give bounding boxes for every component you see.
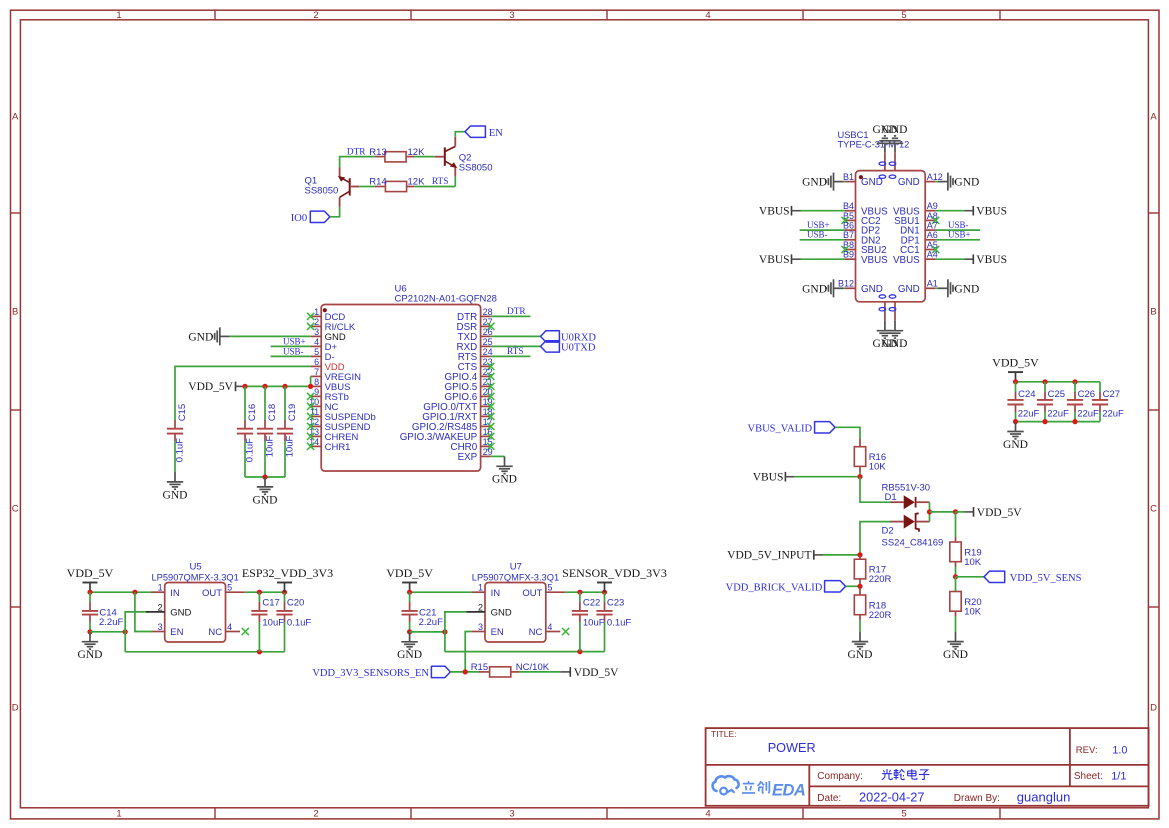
U6 pin 10 NC	[307, 397, 338, 413]
svg-text:IN: IN	[491, 588, 501, 599]
svg-text:GND: GND	[253, 494, 278, 506]
svg-text:IN: IN	[170, 588, 180, 599]
U6 pin 13 CHREN	[307, 427, 359, 443]
svg-text:24: 24	[483, 347, 493, 357]
svg-text:C25: C25	[1048, 389, 1065, 400]
svg-text:SS8050: SS8050	[459, 163, 493, 174]
ground	[943, 632, 968, 661]
svg-text:4: 4	[227, 622, 232, 632]
junction	[407, 629, 412, 634]
svg-text:OUT: OUT	[522, 588, 542, 599]
capacitor C18	[257, 386, 278, 477]
svg-text:4: 4	[705, 10, 710, 21]
sheet field	[1074, 771, 1127, 783]
net label VDD_5V_INPUT	[727, 550, 860, 562]
net label USB+ / wire to U6 pin4	[271, 336, 311, 346]
svg-text:A4: A4	[927, 250, 938, 260]
svg-text:B12: B12	[838, 279, 854, 289]
op-amp U7 LP5907QMFX-3.3Q1 body	[472, 562, 559, 642]
svg-text:25: 25	[483, 337, 493, 347]
svg-text:29: 29	[483, 447, 493, 457]
U6 pin 21 GPIO.5	[445, 377, 495, 393]
power flag SENSOR_VDD_3V3	[562, 566, 667, 592]
svg-text:B: B	[1150, 307, 1156, 318]
svg-text:GND: GND	[861, 177, 883, 188]
USBC1 pin A7 DN1	[900, 221, 938, 237]
svg-text:1/1: 1/1	[1111, 771, 1126, 783]
rev field	[1076, 744, 1128, 756]
svg-text:U5: U5	[190, 562, 202, 573]
junction	[87, 590, 92, 595]
svg-text:2.2uF: 2.2uF	[419, 617, 443, 628]
svg-text:USB-: USB-	[807, 230, 828, 240]
U6 pin 3 GND	[311, 327, 346, 343]
svg-text:3: 3	[314, 327, 319, 337]
svg-text:8: 8	[314, 377, 319, 387]
svg-text:VBUS: VBUS	[759, 206, 790, 218]
wire	[835, 427, 860, 438]
svg-text:10K: 10K	[964, 606, 982, 617]
resistor R17 220R	[854, 555, 891, 586]
capacitor C24 22uF	[1007, 382, 1039, 422]
port U0RXD	[541, 331, 597, 344]
svg-text:SENSOR_VDD_3V3: SENSOR_VDD_3V3	[562, 566, 667, 580]
junction	[123, 629, 128, 634]
svg-text:C20: C20	[287, 597, 304, 608]
junction	[953, 509, 958, 514]
power flag ESP32_VDD_3V3	[242, 566, 333, 592]
svg-text:GND: GND	[188, 331, 213, 343]
U6 pin 27 DSR	[457, 317, 495, 333]
title text POWER	[711, 729, 816, 755]
wire	[414, 156, 435, 158]
svg-text:NC: NC	[529, 627, 543, 638]
svg-text:9: 9	[314, 387, 319, 397]
net label VDD_5V	[956, 507, 1023, 519]
svg-text:LP5907QMFX-3.3Q1: LP5907QMFX-3.3Q1	[152, 573, 239, 583]
wire U7 pin3 EN down to R15 net	[465, 632, 471, 672]
svg-text:2.2uF: 2.2uF	[99, 617, 123, 628]
wire C14 bottom to GND net	[90, 631, 125, 633]
svg-text:C22: C22	[583, 597, 600, 608]
capacitor C14 2.2uF	[82, 592, 124, 632]
svg-text:3: 3	[478, 622, 483, 632]
svg-text:C: C	[12, 504, 19, 515]
capacitor C19	[277, 386, 298, 477]
resistor R14	[369, 177, 425, 192]
wire U6 pin7 to pin8 rail	[310, 376, 312, 386]
svg-text:B1: B1	[843, 172, 854, 182]
svg-text:A1: A1	[927, 279, 938, 289]
svg-text:D1: D1	[885, 492, 897, 503]
svg-text:10uF: 10uF	[262, 618, 284, 629]
svg-text:B: B	[12, 307, 18, 318]
capacitor C27 22uF	[1092, 382, 1124, 422]
svg-text:VDD_5V_SENS: VDD_5V_SENS	[1010, 573, 1082, 584]
net label DTR	[347, 147, 366, 157]
resistor R19 10K	[950, 512, 982, 577]
ground bottom-left	[872, 321, 897, 350]
USBC1 pin B5 CC2	[841, 211, 880, 227]
ground flag at A12	[936, 173, 980, 191]
svg-text:D: D	[1150, 702, 1157, 713]
svg-text:VDD_5V: VDD_5V	[977, 507, 1022, 519]
wire U6 pin25 to U0TXD	[491, 345, 541, 347]
svg-text:REV:: REV:	[1076, 745, 1098, 756]
svg-text:GND: GND	[943, 649, 968, 661]
ground flag at A1	[936, 279, 980, 297]
svg-text:22uF: 22uF	[1077, 408, 1099, 419]
svg-text:0.1uF: 0.1uF	[607, 618, 631, 629]
svg-text:GND: GND	[848, 649, 873, 661]
svg-text:guanglun: guanglun	[1017, 789, 1071, 804]
junction	[857, 552, 862, 557]
svg-text:A: A	[12, 112, 19, 123]
svg-text:Company:: Company:	[817, 771, 863, 782]
svg-text:GND: GND	[898, 284, 920, 295]
svg-text:2: 2	[314, 317, 319, 327]
svg-text:Drawn By:: Drawn By:	[954, 793, 1000, 804]
USBC1 pin B6 DP2	[843, 221, 880, 237]
op-amp U6 CP2102N-A01-GQFN28 body	[321, 284, 497, 472]
svg-text:10K: 10K	[869, 462, 887, 473]
U6 pin 7 VREGIN	[311, 367, 362, 383]
U5 pin 3 EN	[151, 622, 184, 638]
svg-text:POWER: POWER	[768, 741, 816, 755]
wire U6 pin26 to U0RXD	[491, 335, 541, 337]
net label VBUS at B9	[759, 254, 845, 266]
U6 pin 17 GPIO.2/RS485	[412, 417, 495, 433]
wire C21 bottom to GND net	[410, 631, 445, 633]
svg-text:GND: GND	[1003, 439, 1028, 451]
U6 pin 16 GPIO.3/WAKEUP	[400, 427, 495, 443]
USBC1 shell pins to bottom grounds	[879, 295, 896, 321]
svg-text:SS24_C84169: SS24_C84169	[882, 537, 944, 548]
wire	[174, 441, 176, 472]
svg-text:CP2102N-A01-GQFN28: CP2102N-A01-GQFN28	[395, 293, 497, 304]
svg-text:GND: GND	[397, 649, 422, 661]
wire to VDD_5V	[930, 511, 956, 513]
net label USB- wire to A7	[936, 220, 980, 230]
company value 光轮电子	[882, 769, 930, 780]
U6 pin 15 CHR0	[451, 437, 495, 453]
U6 pin 5 D-	[311, 347, 335, 363]
svg-text:0.1uF: 0.1uF	[174, 438, 185, 462]
ground flag at B1	[802, 173, 845, 191]
svg-text:VDD_5V: VDD_5V	[992, 356, 1039, 370]
net label USB- wire to B7	[800, 230, 845, 240]
wire D2 anode	[860, 522, 891, 555]
svg-text:10uF: 10uF	[284, 435, 295, 457]
USBC1 pin A1 GND	[898, 279, 938, 295]
svg-text:EN: EN	[491, 627, 504, 638]
port VDD_3V3_SENSORS_EN	[312, 666, 450, 679]
svg-text:2022-04-27: 2022-04-27	[859, 789, 924, 804]
svg-text:0.1uF: 0.1uF	[287, 618, 311, 629]
U7 pin 4 NC	[529, 622, 570, 638]
net label RTS	[432, 177, 449, 187]
diode D2 SS24_C84169	[882, 513, 944, 548]
wire U6 pin29 EXP to ground	[491, 455, 505, 457]
U6 pin 23 CTS	[458, 357, 495, 373]
wire DTR vertical	[340, 157, 375, 168]
port IO0	[291, 211, 330, 224]
U6 pin 4 D+	[311, 337, 338, 353]
junction	[577, 590, 582, 595]
svg-text:GND: GND	[861, 284, 883, 295]
power flag VDD_5V above C24	[992, 356, 1039, 382]
svg-text:C18: C18	[267, 404, 278, 421]
net label USB+ wire to B6	[800, 220, 845, 230]
svg-text:VDD_3V3_SENSORS_EN: VDD_3V3_SENSORS_EN	[312, 668, 429, 679]
svg-text:C27: C27	[1103, 389, 1120, 400]
wire to VDD_5V_SENS	[956, 576, 985, 578]
junction	[1042, 419, 1047, 424]
svg-text:4: 4	[547, 622, 552, 632]
capacitor C21 2.2uF	[402, 592, 444, 632]
svg-text:A7: A7	[927, 221, 938, 231]
svg-text:VDD_BRICK_VALID: VDD_BRICK_VALID	[726, 582, 823, 593]
svg-text:Sheet:: Sheet:	[1074, 771, 1103, 782]
wire IN rail	[90, 591, 151, 593]
wire U6 pin6 VDD to C15	[175, 366, 311, 420]
wire	[330, 207, 340, 217]
svg-text:1: 1	[478, 583, 483, 593]
net label VBUS at B4	[759, 206, 845, 218]
svg-text:NC: NC	[208, 627, 222, 638]
U7 pin 5 OUT	[522, 583, 565, 599]
svg-text:VBUS: VBUS	[976, 254, 1007, 266]
wire IN rail U7	[410, 591, 472, 593]
U7 pin 2 GND	[466, 602, 512, 618]
wire EN tie to IN	[135, 592, 153, 631]
U6 pin 18 GPIO.1/RXT	[422, 407, 494, 423]
junction	[262, 474, 267, 479]
junction	[953, 574, 958, 579]
junction	[282, 384, 287, 389]
junction	[308, 384, 313, 389]
ground	[848, 632, 873, 661]
net label VDD_5V at U6 pin8	[188, 381, 245, 393]
svg-text:7: 7	[314, 367, 319, 377]
wire	[450, 671, 478, 673]
USBC1 shell pins to top grounds	[879, 152, 896, 178]
capacitor C17 10uF	[251, 592, 284, 652]
port U0TXD	[541, 341, 596, 354]
svg-text:1.0: 1.0	[1112, 744, 1127, 756]
svg-text:GND: GND	[492, 474, 517, 486]
wire	[230, 335, 311, 337]
ground top-right inverted	[883, 124, 908, 153]
capacitor C15	[167, 404, 188, 462]
svg-text:2: 2	[158, 602, 163, 612]
svg-text:GND: GND	[802, 177, 827, 189]
svg-text:GND: GND	[954, 283, 979, 295]
junction	[463, 669, 468, 674]
svg-text:2: 2	[313, 809, 318, 820]
USBC1 pin A5 CC1	[900, 240, 939, 256]
svg-text:5: 5	[314, 347, 319, 357]
wire bottom rail	[1016, 421, 1101, 423]
svg-text:TITLE:: TITLE:	[711, 729, 737, 739]
ground bottom-right	[883, 321, 908, 350]
svg-text:C24: C24	[1018, 389, 1035, 400]
transistor Q2	[435, 137, 493, 187]
svg-text:GND: GND	[883, 124, 908, 136]
ground flag at U6 pin3	[188, 327, 229, 345]
ground flag at B12	[802, 279, 845, 297]
svg-text:10uF: 10uF	[264, 435, 275, 457]
op-amp U5 LP5907QMFX-3.3Q1 body	[152, 562, 239, 642]
svg-text:B6: B6	[843, 221, 854, 231]
ground	[163, 472, 188, 501]
svg-text:EN: EN	[489, 128, 503, 139]
junction	[262, 384, 267, 389]
svg-text:C16: C16	[247, 404, 258, 421]
capacitor C25 22uF	[1037, 382, 1069, 422]
svg-text:5: 5	[901, 10, 906, 21]
svg-text:26: 26	[483, 327, 493, 337]
svg-text:3: 3	[509, 10, 514, 21]
svg-text:1: 1	[314, 307, 319, 317]
svg-text:VBUS_VALID: VBUS_VALID	[748, 423, 813, 434]
resistor R18 220R	[854, 586, 891, 621]
svg-text:5: 5	[227, 583, 232, 593]
USBC1 pin A12 GND	[898, 172, 943, 188]
svg-text:VDD_5V: VDD_5V	[67, 566, 114, 580]
wire top rail	[1016, 381, 1101, 383]
ground	[492, 456, 517, 485]
USBC1 pin A6 DP1	[901, 230, 938, 246]
svg-text:5: 5	[901, 809, 906, 820]
wire	[455, 132, 465, 137]
svg-text:6: 6	[314, 357, 319, 367]
title block frame	[706, 728, 1149, 806]
svg-text:B9: B9	[843, 250, 854, 260]
junction	[132, 590, 137, 595]
wire OUT rail U5	[245, 591, 285, 593]
USBC1 pin B9 VBUS	[843, 250, 888, 266]
wire	[859, 620, 861, 632]
connector USBC1 TYPE-C-31-M-12 body	[838, 130, 926, 302]
svg-text:10K: 10K	[964, 557, 982, 568]
port EN	[465, 126, 503, 139]
junction	[577, 649, 582, 654]
junction	[257, 649, 262, 654]
junction	[442, 629, 447, 634]
ground top-left inverted	[872, 124, 897, 153]
LCEDA logo	[713, 776, 806, 799]
junction	[857, 584, 862, 589]
svg-text:C17: C17	[262, 597, 279, 608]
svg-text:VBUS: VBUS	[759, 254, 790, 266]
wire OUT rail U7	[565, 591, 604, 593]
U6 pin 29 EXP	[458, 447, 493, 463]
svg-text:GND: GND	[883, 338, 908, 350]
svg-text:5: 5	[547, 583, 552, 593]
capacitor C26 22uF	[1067, 382, 1099, 422]
resistor R13	[369, 147, 425, 162]
svg-text:DTR: DTR	[347, 147, 366, 157]
junction	[87, 629, 92, 634]
U6 pin 24 RTS	[458, 347, 493, 363]
capacitor C16	[237, 386, 258, 477]
svg-text:VBUS: VBUS	[753, 472, 784, 484]
junction	[1013, 379, 1018, 384]
svg-text:1: 1	[116, 809, 121, 820]
svg-text:USB-: USB-	[948, 220, 969, 230]
wire RTS row	[359, 186, 374, 188]
svg-text:GND: GND	[898, 177, 920, 188]
svg-text:GND: GND	[491, 608, 512, 619]
svg-text:VDD_5V_INPUT: VDD_5V_INPUT	[727, 550, 811, 562]
junction	[282, 590, 287, 595]
svg-text:EN: EN	[170, 627, 183, 638]
port VBUS_VALID	[748, 422, 836, 435]
capacitor C20 0.1uF	[276, 592, 311, 652]
drawn by field	[954, 789, 1071, 804]
company field	[817, 771, 863, 782]
wire U7 pin2 GND down	[445, 612, 466, 652]
U6 pin 28 DTR	[457, 307, 493, 323]
svg-text:ESP32_VDD_3V3: ESP32_VDD_3V3	[242, 566, 333, 580]
junction	[1042, 379, 1047, 384]
svg-text:4: 4	[705, 809, 710, 820]
diode D1 RB551V-30	[882, 482, 931, 509]
svg-text:Date:: Date:	[817, 793, 841, 804]
port VDD_BRICK_VALID	[726, 581, 846, 594]
svg-text:1: 1	[158, 583, 163, 593]
svg-text:USB+: USB+	[807, 220, 830, 230]
U7 pin 1 IN	[471, 583, 500, 599]
svg-text:D: D	[12, 702, 19, 713]
svg-text:C15: C15	[177, 404, 188, 421]
svg-text:VBUS: VBUS	[976, 206, 1007, 218]
resistor R20 10K	[950, 577, 982, 632]
svg-text:2: 2	[313, 10, 318, 21]
svg-text:2: 2	[478, 602, 483, 612]
U6 pin 8 VBUS	[311, 377, 351, 393]
junction	[602, 590, 607, 595]
svg-text:R15: R15	[471, 662, 488, 673]
wire bottom rail U7	[445, 651, 605, 653]
net label VBUS at A4	[936, 254, 1007, 266]
U5 pin 1 IN	[151, 583, 180, 599]
svg-text:GND: GND	[78, 649, 103, 661]
svg-text:GND: GND	[802, 283, 827, 295]
svg-text:OUT: OUT	[202, 588, 222, 599]
USBC1 pin B7 DN2	[843, 230, 881, 246]
svg-text:0.1uF: 0.1uF	[244, 438, 255, 462]
wire cap bottom rail	[245, 476, 285, 478]
wire bottom rail U5	[125, 651, 284, 653]
svg-text:B4: B4	[843, 201, 854, 211]
svg-text:10uF: 10uF	[583, 618, 605, 629]
port VDD_5V_SENS	[984, 571, 1082, 584]
power flag VDD_5V at C21	[386, 566, 433, 592]
junction	[927, 509, 932, 514]
junction	[1013, 419, 1018, 424]
U6 pin 19 GPIO.0/TXT	[423, 397, 494, 413]
junction	[407, 590, 412, 595]
svg-text:EXP: EXP	[458, 452, 478, 463]
net label USB- / wire to U6 pin5	[271, 346, 311, 356]
U6 pin 14 CHR1	[307, 437, 350, 453]
svg-text:VDD_5V: VDD_5V	[386, 566, 433, 580]
net label VBUS	[753, 472, 860, 484]
U7 pin 3 EN	[471, 622, 504, 638]
date field	[817, 789, 924, 804]
